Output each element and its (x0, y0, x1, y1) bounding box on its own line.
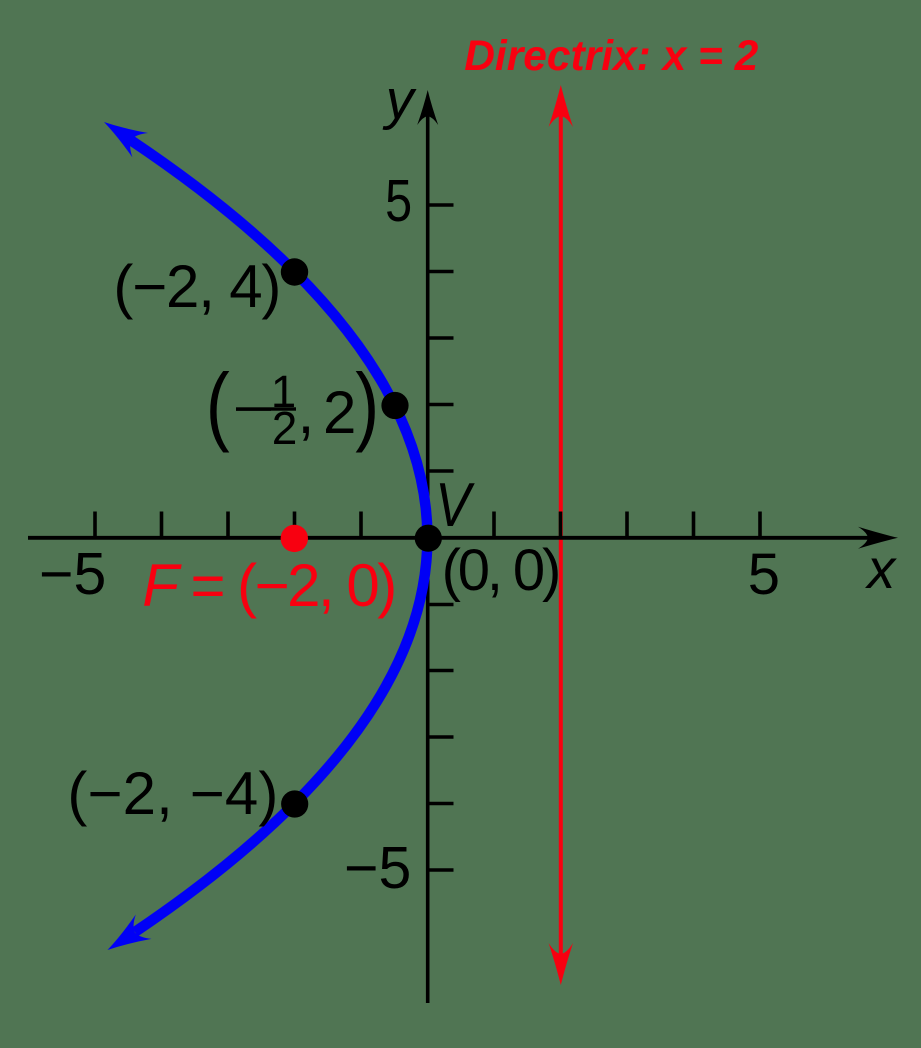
parabola arrowhead top-left (96, 110, 148, 158)
svg-text:, 2: , 2 (298, 379, 357, 446)
svg-text:5: 5 (385, 168, 412, 234)
x-axis arrowhead (858, 527, 898, 549)
x-axis (28, 536, 880, 540)
svg-text:x: x (864, 537, 897, 600)
svg-text:5: 5 (748, 542, 780, 607)
label (-1/2, 2): minus (236, 407, 271, 411)
y-axis arrowhead (417, 90, 438, 125)
parabola curve (131, 140, 428, 932)
y-axis ticks (426, 205, 454, 870)
focus dot F(-2,0) (281, 525, 308, 552)
svg-text:(: ( (206, 357, 230, 454)
svg-text:F = (−2, 0): F = (−2, 0) (142, 552, 397, 619)
directrix arrowhead top (549, 85, 573, 127)
svg-text:(−2, 4): (−2, 4) (113, 253, 281, 320)
label (-1/2, 2): fraction bar (271, 407, 296, 410)
svg-text:(0, 0): (0, 0) (442, 538, 562, 603)
svg-text:(−2, −4): (−2, −4) (67, 760, 278, 827)
directrix arrowhead bottom (549, 943, 573, 985)
parabola arrowhead bottom-left (100, 915, 152, 963)
directrix line x=2 (559, 111, 563, 957)
x-axis ticks (95, 512, 760, 540)
y-axis (426, 112, 430, 1003)
svg-text:−5: −5 (39, 541, 106, 607)
svg-text:y: y (382, 68, 417, 131)
point dot (-2,4) (281, 258, 308, 285)
vertex dot (0,0) (415, 525, 442, 552)
svg-text:Directrix: x = 2: Directrix: x = 2 (464, 33, 758, 80)
svg-text:V: V (435, 471, 475, 540)
point dot (-1/2,2) (381, 392, 408, 419)
point dot (-2,-4) (281, 790, 308, 817)
svg-text:): ) (355, 357, 379, 454)
svg-text:−5: −5 (344, 835, 411, 901)
svg-text:2: 2 (272, 402, 298, 454)
